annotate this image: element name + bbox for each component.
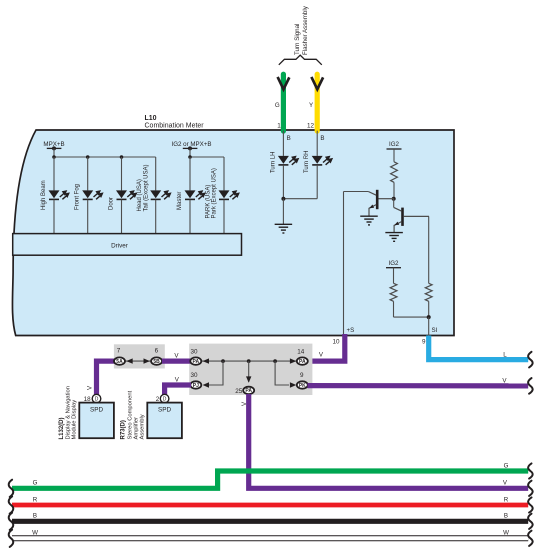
pin 30 upper [190, 348, 198, 355]
wire V 5B to PA [162, 359, 196, 364]
SPD box L132(D) [79, 403, 114, 439]
wire Q2 base down [428, 216, 430, 283]
connector chevron on green wire [278, 77, 290, 89]
label V right lower [503, 480, 508, 487]
wire V PK to right edge [308, 383, 529, 388]
break symbol left y488.3 [9, 480, 14, 497]
svg-text:Module Display: Module Display [72, 400, 78, 440]
svg-text:Y: Y [309, 102, 313, 109]
svg-text:G: G [275, 102, 280, 109]
LED indicator D4 [150, 190, 171, 199]
svg-text:G: G [504, 462, 509, 469]
label V SPD1 wire [87, 385, 94, 390]
power tap MPX+B symbol [47, 146, 62, 157]
wire LED column 4 anode [155, 157, 157, 190]
break symbol left y538.3 [9, 530, 14, 547]
wire R3 to SI node [428, 301, 430, 317]
pin 9 [422, 339, 426, 346]
break symbol V upper [528, 378, 533, 394]
ground Q1 emitter [360, 216, 378, 225]
svg-text:9: 9 [422, 339, 426, 346]
wire turn LH [282, 131, 284, 156]
label High Beam [41, 180, 47, 210]
LED indicator D6 [219, 190, 240, 199]
pin 6 [155, 348, 159, 355]
LED indicator D5 [185, 190, 206, 199]
arrow into 5B [144, 358, 150, 363]
power tap IG2 lower label [389, 260, 400, 267]
svg-text:1: 1 [277, 122, 281, 129]
wire LED column 5 cathode [189, 200, 191, 234]
pin 14 [297, 348, 305, 355]
svg-text:PK: PK [299, 383, 306, 389]
label SPD2 [158, 407, 172, 414]
label PARK (USA) [205, 185, 211, 219]
LED Turn LH [278, 156, 299, 165]
svg-text:Door: Door [109, 197, 115, 210]
junction dot col3 [120, 155, 124, 159]
label Amplifier [134, 417, 140, 440]
svg-text:PA: PA [193, 359, 200, 365]
label Front Fog [75, 184, 81, 210]
brace for flasher assembly [279, 55, 322, 65]
svg-text:Turn RH: Turn RH [304, 151, 310, 173]
wire collector Q1 to +S line [344, 191, 369, 193]
wire B bottom [12, 519, 528, 524]
svg-text:7: 7 [117, 348, 121, 355]
svg-text:5A: 5A [116, 359, 123, 365]
svg-text:L132(D): L132(D) [59, 417, 65, 439]
svg-text:R73(D): R73(D) [121, 420, 127, 439]
resistor R3 [425, 283, 432, 301]
connector PK 9 [297, 381, 308, 389]
combination meter box L10 outline [12, 130, 454, 336]
svg-text:Flasher Assembly: Flasher Assembly [302, 5, 309, 55]
resistor R2 [390, 283, 397, 301]
wire to turn ground [282, 199, 284, 225]
wire V SPD1 to 5A [97, 361, 122, 396]
connector D SPD2 [160, 394, 169, 403]
label L10 [145, 115, 157, 122]
LED Turn RH [312, 156, 333, 165]
svg-text:SPD: SPD [90, 407, 104, 414]
label R73(D) [121, 420, 127, 439]
arrow into PA30 [203, 358, 209, 363]
label V PK [502, 378, 507, 385]
svg-text:G: G [33, 480, 38, 487]
svg-text:Combination Meter: Combination Meter [145, 123, 205, 130]
label L132(D) [59, 417, 65, 439]
pin 30 lower [190, 372, 198, 379]
junction dot turn [281, 197, 285, 201]
arrow into PA25 [246, 376, 251, 382]
pin 12 [307, 122, 315, 129]
label Module Display [72, 400, 78, 440]
svg-text:Head (USA): Head (USA) [137, 179, 143, 211]
arrow into PA14 [290, 358, 296, 363]
label B right [504, 513, 508, 520]
power tap IG2 or MPX+B label [171, 141, 211, 148]
svg-text:Turn LH: Turn LH [270, 152, 276, 173]
arrow into PJ [203, 382, 209, 387]
junction block gray P [189, 344, 312, 395]
power tap MPX+B label [43, 141, 64, 148]
connector PA 25 [243, 387, 254, 395]
LED indicator D1 [49, 190, 70, 199]
label B internal LH [287, 135, 291, 142]
transistor Q2 [394, 207, 429, 232]
wire SI to pin 9 [428, 317, 430, 335]
wire J3 to PK [275, 361, 289, 385]
break symbol right y505 [528, 497, 533, 512]
wire G bottom [12, 471, 528, 488]
label Driver [111, 243, 128, 250]
label V vertical [241, 401, 248, 406]
svg-text:R: R [33, 496, 38, 503]
wire V from pin10 to PA14 [303, 334, 345, 361]
label +S [347, 327, 355, 334]
LED indicator D2 [82, 190, 103, 199]
svg-text:Driver: Driver [111, 243, 128, 250]
wire LED column 6 anode [223, 157, 225, 190]
wire W bottom [12, 535, 528, 541]
power tap IG2 or MPX+B symbol [183, 146, 198, 157]
svg-text:30: 30 [190, 348, 198, 355]
svg-text:B: B [504, 513, 508, 520]
label Stereo Component [128, 390, 134, 439]
label Display & Navigation [66, 386, 72, 440]
wire LED column 6 cathode [223, 200, 225, 234]
driver box [13, 234, 242, 256]
wire 5A-5B internal [125, 360, 151, 362]
svg-text:R: R [504, 496, 509, 503]
svg-text:W: W [503, 530, 509, 537]
svg-text:IG2 or MPX+B: IG2 or MPX+B [171, 141, 211, 148]
label L [503, 351, 507, 358]
label V PJ [175, 377, 180, 384]
label Turn RH [304, 151, 310, 173]
label Turn Signal [294, 24, 301, 55]
wire PA30-PA14 internal [202, 360, 297, 362]
label Assembly [140, 414, 146, 439]
svg-text:14: 14 [297, 348, 305, 355]
arrow into PK [290, 382, 296, 387]
svg-text:5B: 5B [153, 359, 160, 365]
SPD box R73(D) [147, 403, 182, 439]
label G left [33, 480, 38, 487]
break symbol right y471 [528, 463, 533, 478]
label B left [33, 513, 37, 520]
svg-text:Park (Except USA): Park (Except USA) [212, 168, 218, 218]
label Y wire color [309, 102, 313, 109]
wire LED column 4 cathode [155, 200, 157, 234]
connector 5A [114, 357, 125, 365]
svg-text:+S: +S [347, 327, 355, 334]
svg-text:30: 30 [190, 372, 198, 379]
bus wire MPX+B [54, 156, 156, 158]
svg-text:Tail (Except USA): Tail (Except USA) [143, 164, 149, 211]
wire turn RH [316, 131, 318, 156]
label Door [109, 197, 115, 210]
label SI [432, 327, 438, 334]
wire LED column 1 anode [53, 157, 55, 190]
connector PA 30 [190, 357, 201, 365]
wire R bottom [12, 503, 528, 508]
junction dot col5 [188, 155, 192, 159]
break symbol right y488.3 [528, 481, 533, 496]
label R left [33, 496, 38, 503]
connector PA 14 [297, 357, 308, 365]
label SPD1 [90, 407, 104, 414]
wire LED column 2 cathode [87, 200, 89, 234]
wire R2 to SI node [394, 301, 429, 317]
arrow into 5A [126, 358, 132, 363]
svg-text:PA: PA [299, 359, 306, 365]
wire L (light blue) from SI [429, 336, 529, 360]
svg-text:B: B [287, 135, 291, 142]
svg-text:IG2: IG2 [389, 141, 400, 148]
break symbol left y505 [9, 496, 14, 513]
junction block gray 5A/5B [114, 344, 165, 368]
wire LED column 3 anode [121, 157, 123, 190]
bus wire IG2/MPX+B [190, 156, 224, 158]
svg-text:9: 9 [300, 372, 304, 379]
pin 7 [117, 348, 121, 355]
transistor Q1 [368, 190, 393, 216]
node base junction [392, 197, 396, 201]
svg-text:Assembly: Assembly [140, 414, 146, 439]
label Head (USA) [137, 179, 143, 211]
wire LED column 2 anode [87, 157, 89, 190]
label W right [503, 530, 509, 537]
pin 1 [277, 122, 281, 129]
svg-text:L10: L10 [145, 115, 157, 122]
junction dot col2 [86, 155, 90, 159]
connector chevron on yellow wire [311, 77, 323, 89]
break symbol left y521.3 [9, 513, 14, 530]
connector 5B [151, 357, 162, 365]
svg-text:High Beam: High Beam [41, 180, 47, 210]
pin 25 [235, 388, 243, 395]
power tap IG2 upper bar [387, 149, 402, 162]
ground Q2 emitter [385, 233, 403, 242]
svg-text:B: B [320, 135, 324, 142]
label B internal RH [320, 135, 324, 142]
label G wire color [275, 102, 280, 109]
pin10 V label [319, 352, 324, 359]
connector D SPD1 [92, 394, 101, 403]
pin 18 [84, 396, 92, 403]
wire +S internal [343, 192, 345, 336]
wire LED column 1 cathode [53, 200, 55, 234]
wire LED column 5 anode [189, 157, 191, 190]
svg-text:IG2: IG2 [389, 260, 400, 267]
label Tail (Except USA) [143, 164, 149, 211]
LED indicator D3 [116, 190, 137, 199]
svg-text:W: W [32, 530, 38, 537]
svg-text:PA: PA [245, 388, 252, 394]
resistor R1 [391, 162, 398, 183]
wire J1 to PJ [209, 361, 223, 385]
break symbol L wire [528, 352, 533, 368]
wire G from flasher (green) [281, 74, 286, 131]
junction dot J1 [221, 359, 225, 363]
svg-text:PJ: PJ [193, 383, 199, 389]
junction dot J2 [247, 359, 251, 363]
label Park (Except USA) [212, 168, 218, 218]
label Combination Meter [145, 123, 205, 130]
power tap IG2 lower bar [386, 268, 401, 284]
label V 5B-PA [174, 352, 179, 359]
svg-text:L: L [503, 351, 507, 358]
wire RH cathode down [283, 165, 317, 199]
svg-text:Master: Master [177, 192, 183, 210]
power tap IG2 upper label [389, 141, 400, 148]
connector PJ 30 [190, 381, 201, 389]
wire J2 to PA25 [248, 361, 250, 382]
svg-text:Turn Signal: Turn Signal [294, 24, 301, 55]
label Flasher Assembly [302, 5, 309, 55]
label Master [177, 192, 183, 210]
junction dot col1 [52, 155, 56, 159]
label R right [504, 496, 509, 503]
wire V PJ to SPD2 [165, 385, 191, 396]
junction dot SI node [427, 315, 431, 319]
label G right [504, 462, 509, 469]
wire Y from flasher (yellow) [315, 74, 320, 131]
pin 10 [332, 339, 340, 346]
svg-text:SI: SI [432, 327, 438, 334]
wire LH cathode down [282, 165, 284, 199]
wire node to Q2 collector [393, 199, 395, 208]
break symbol right y521.3 [528, 514, 533, 529]
svg-text:12: 12 [307, 122, 315, 129]
svg-text:25: 25 [235, 388, 243, 395]
pin 2 [156, 396, 160, 403]
wire R1 to node [393, 182, 395, 198]
label W left [32, 530, 38, 537]
wire V from PA25 down and right [249, 394, 529, 488]
break symbol right y538.3 [528, 531, 533, 546]
svg-text:6: 6 [155, 348, 159, 355]
junction dot J3 [273, 359, 277, 363]
svg-text:PARK (USA): PARK (USA) [205, 185, 211, 219]
pin 9 PK [300, 372, 304, 379]
ground turn LEDs [275, 224, 293, 233]
label Turn LH [270, 152, 276, 173]
svg-text:SPD: SPD [158, 407, 172, 414]
wire LED column 3 cathode [121, 200, 123, 234]
svg-text:10: 10 [332, 339, 340, 346]
svg-text:B: B [33, 513, 37, 520]
svg-text:Front Fog: Front Fog [75, 184, 81, 210]
